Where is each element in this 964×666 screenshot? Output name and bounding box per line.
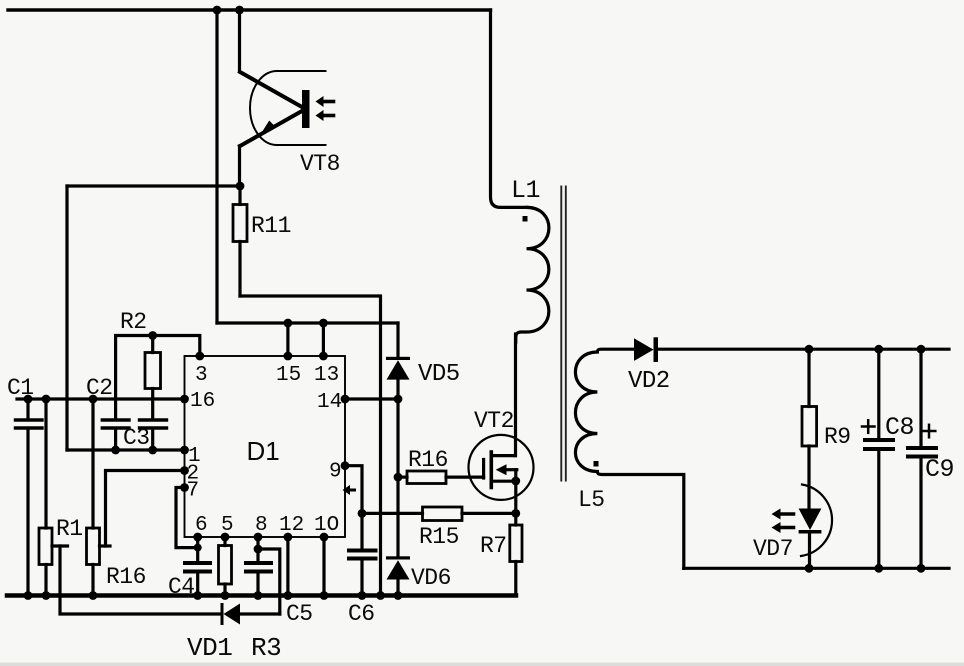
label VD2	[628, 368, 670, 395]
svg-text:L1: L1	[511, 176, 540, 205]
wire VT8 emitter	[238, 146, 241, 186]
svg-text:VD1: VD1	[187, 633, 232, 663]
node bus R1	[42, 591, 51, 600]
label R2	[120, 309, 147, 335]
capacitor C3	[140, 420, 167, 450]
node top wire drop	[213, 6, 222, 15]
wire pin12 to ground	[286, 537, 289, 596]
pin 2	[180, 463, 199, 486]
node bus R11	[376, 591, 385, 600]
svg-text:C9: C9	[925, 455, 954, 484]
pin 6	[193, 514, 207, 541]
pin sense arrow	[343, 485, 355, 495]
capacitor C6	[349, 551, 376, 596]
node bus pin10	[320, 591, 329, 600]
svg-text:12: 12	[279, 514, 304, 537]
transistor VT8	[240, 71, 334, 146]
label C1	[7, 375, 34, 401]
resistor R11	[233, 186, 247, 296]
svg-text:3: 3	[195, 364, 208, 387]
diode VD1	[221, 603, 241, 625]
label VT8	[300, 151, 340, 177]
node bus C4	[193, 591, 202, 600]
capacitor C4	[185, 537, 210, 596]
node rail C9 top	[917, 345, 926, 354]
node rail C8 top	[874, 345, 883, 354]
svg-text:9: 9	[329, 461, 342, 484]
capacitor C8	[862, 349, 893, 568]
node C1 top	[24, 395, 33, 404]
label C2	[86, 375, 113, 401]
svg-text:13: 13	[314, 364, 339, 387]
svg-text:R11: R11	[251, 213, 291, 239]
resistor R15	[362, 507, 516, 521]
capacitor C5	[246, 537, 271, 596]
node emitter/R11 junction	[236, 182, 245, 191]
diode VD5	[386, 323, 410, 557]
svg-text:VD5: VD5	[418, 361, 460, 388]
label R1	[56, 516, 83, 542]
capacitor C9	[908, 349, 936, 568]
label VT2	[474, 408, 514, 434]
node L1 polarity	[523, 216, 528, 222]
wire pin13 stub	[319, 319, 328, 356]
label VD5	[418, 361, 460, 388]
wire VT8 collector	[238, 10, 241, 71]
wire left feedback drop	[65, 186, 68, 450]
bottom grey strip	[0, 663, 964, 666]
node top wire VT8	[235, 6, 244, 15]
label R9	[824, 424, 851, 450]
inductor L1	[491, 10, 549, 342]
label R16 lower	[106, 564, 146, 590]
node rail C9 bottom	[917, 564, 926, 573]
svg-text:L5: L5	[578, 487, 605, 513]
svg-text:C6: C6	[348, 601, 375, 627]
svg-text:R1: R1	[56, 516, 83, 542]
svg-text:VD6: VD6	[411, 565, 451, 591]
wire pin14	[345, 397, 398, 400]
wire pin15 stub	[284, 319, 293, 356]
svg-text:7: 7	[187, 480, 200, 503]
wire VT2 drain	[514, 334, 517, 456]
wire pin3 net	[116, 336, 200, 419]
resistor R9	[802, 349, 817, 508]
label L1	[511, 176, 540, 205]
svg-text:16: 16	[190, 390, 215, 413]
svg-text:D1: D1	[247, 436, 280, 466]
pin 15	[276, 352, 301, 387]
label C4	[168, 574, 195, 600]
node C3 pin1	[148, 446, 157, 455]
svg-text:R9: R9	[824, 424, 851, 450]
label VD1	[187, 633, 232, 663]
wire pin16 net	[17, 397, 185, 400]
node pin9/C6	[358, 509, 367, 518]
svg-text:C8: C8	[885, 413, 914, 442]
label C9	[925, 455, 954, 484]
label VD7	[753, 536, 793, 562]
wire VD1 line	[241, 612, 280, 615]
label R11	[251, 213, 291, 239]
label C3	[123, 425, 150, 451]
wire output minus rail	[684, 567, 949, 570]
resistor R16 gate	[398, 471, 484, 484]
capacitor C2	[102, 420, 129, 450]
pin 8	[254, 514, 268, 541]
wire pin9 net	[345, 466, 362, 549]
pin 1	[180, 445, 201, 468]
pin 5	[221, 514, 234, 541]
svg-text:C5: C5	[286, 601, 313, 627]
svg-text:R2: R2	[120, 309, 147, 335]
node rail R9 top	[805, 345, 814, 354]
resistor R7	[510, 525, 522, 596]
wire VT2 source down	[514, 481, 517, 525]
node bus R3	[221, 591, 230, 600]
svg-text:R16: R16	[408, 447, 448, 473]
label R7	[480, 533, 507, 559]
node R1 top	[42, 395, 51, 404]
wire R11 to ground	[240, 296, 381, 596]
wire pin8 to VD1	[258, 549, 280, 614]
node pin14/VD5	[394, 395, 403, 404]
pin 7	[180, 480, 199, 503]
resistor R2	[145, 336, 161, 419]
node bus C6	[358, 591, 367, 600]
label R16 gate	[408, 447, 448, 473]
diode VD2	[634, 337, 658, 362]
wire pin2 to R16 tap	[106, 471, 185, 547]
svg-text:15: 15	[276, 364, 301, 387]
wire feedback to emitter node	[67, 184, 240, 187]
label C6	[348, 601, 375, 627]
svg-text:R16: R16	[106, 564, 146, 590]
inductor L5	[575, 349, 683, 568]
svg-text:R7: R7	[480, 533, 507, 559]
label VD6	[411, 565, 451, 591]
wire top mains rail	[8, 8, 491, 11]
node pin8 tap	[254, 545, 263, 554]
label D1	[247, 436, 280, 466]
pin 3	[195, 352, 208, 387]
capacitor C1	[16, 399, 43, 596]
node rail VD7 bottom	[805, 564, 814, 573]
svg-text:C3: C3	[123, 425, 150, 451]
node bus VD6	[394, 591, 403, 600]
wire pin1 net	[67, 448, 185, 451]
pin 12	[279, 514, 304, 541]
svg-text:VT2: VT2	[474, 408, 514, 434]
label L5	[578, 487, 605, 513]
node L5 polarity	[594, 461, 599, 467]
pin 13	[314, 352, 339, 387]
label C5	[286, 601, 313, 627]
resistor R1	[39, 399, 68, 596]
wire output plus rail	[658, 348, 949, 351]
wire clamp horizontal	[217, 321, 398, 324]
node R15/R7	[511, 509, 520, 518]
node R16 top	[89, 395, 98, 404]
label C8	[885, 413, 914, 442]
label R15	[419, 524, 459, 550]
pin 9	[329, 461, 349, 484]
svg-text:14: 14	[317, 391, 342, 414]
node VT2 source	[511, 477, 520, 486]
wire mains drop to clamp	[215, 10, 218, 323]
node R2 top	[148, 331, 157, 340]
node bus pin12	[284, 591, 293, 600]
wire ground bus	[7, 593, 516, 598]
svg-text:VD2: VD2	[628, 368, 670, 395]
node rail C8 bottom	[874, 564, 883, 573]
svg-text:R3: R3	[251, 633, 281, 663]
svg-text:VT8: VT8	[300, 151, 340, 177]
transistor VT2	[469, 435, 534, 500]
node bus C1	[24, 591, 33, 600]
wire pin10 to ground	[322, 537, 325, 596]
svg-text:R15: R15	[419, 524, 459, 550]
node C2 pin1	[111, 446, 120, 455]
node bus C5	[254, 591, 263, 600]
label R3	[251, 633, 281, 663]
pin 16	[180, 390, 215, 413]
resistor R16 lower	[87, 399, 111, 596]
wire R1 tap to VD1 line	[60, 546, 221, 614]
IC D1	[185, 356, 346, 537]
node R16 mid left	[394, 473, 403, 482]
resistor R3	[219, 537, 232, 596]
diode VD7	[772, 485, 833, 569]
diode VD6	[386, 556, 410, 595]
transformer core	[561, 187, 566, 481]
node bus R16	[89, 591, 98, 600]
pin 14	[317, 391, 349, 414]
wire pin7 net	[176, 488, 202, 552]
pin 10	[314, 514, 339, 541]
svg-text:VD7: VD7	[753, 536, 793, 562]
